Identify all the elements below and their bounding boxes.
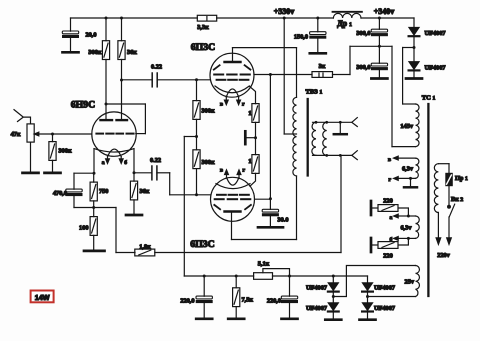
svg-text:0.22: 0.22 (151, 63, 162, 70)
svg-text:в: в (220, 102, 223, 108)
svg-text:6,3v: 6,3v (402, 166, 414, 173)
svg-text:UF4007: UF4007 (425, 30, 446, 37)
svg-text:145v: 145v (400, 123, 413, 130)
ground of R13 (84, 250, 105, 253)
svg-text:ТВЗ 1: ТВЗ 1 (306, 89, 323, 96)
svg-text:UF4007: UF4007 (306, 285, 327, 292)
wire screen lower tube (255, 198, 271, 200)
TVZ secondary winding b (323, 122, 327, 155)
svg-text:Пр 1: Пр 1 (455, 175, 468, 182)
wire cathode V1 right to concertina output (133, 149, 135, 173)
inductor Dr1 choke (333, 13, 361, 18)
svg-text:6,3v: 6,3v (400, 225, 412, 232)
svg-text:6Н9С: 6Н9С (71, 100, 96, 111)
speaker terminal fork lower (352, 151, 358, 160)
wire cathode lower tube (250, 173, 256, 186)
svg-text:30.0: 30.0 (278, 217, 289, 224)
resistor R6 1 ohm (252, 155, 259, 174)
wire right diode node to 25v bottom (368, 296, 416, 298)
wire cathode V1 left (93, 149, 95, 173)
wire B+ top rail (71, 17, 198, 19)
wire feedback run (115, 208, 117, 253)
TC1 primary 220v (434, 164, 438, 213)
svg-text:36к: 36к (140, 188, 150, 195)
ground of C4 (371, 78, 387, 80)
TC1 winding 6,3v heater second (416, 216, 420, 238)
heater pins v g lower tube (226, 173, 228, 178)
resistor R1 300k plate load (105, 18, 107, 41)
ground of heater winding (410, 178, 412, 186)
ground of R11 (45, 172, 61, 174)
capacitor C9 220,0 (203, 276, 205, 296)
svg-text:7,5к: 7,5к (242, 296, 254, 303)
capacitor C5 30,0 screen bypass (269, 199, 271, 210)
resistor R9 36k concertina cathode load (133, 173, 135, 181)
svg-text:1,8к: 1,8к (139, 243, 151, 250)
svg-text:6П3С: 6П3С (190, 239, 215, 250)
potentiometer R10 47k volume (27, 124, 34, 142)
resistor R12 750 cathode bias (93, 173, 95, 182)
svg-text:+330v: +330v (274, 7, 295, 16)
svg-text:а: а (102, 160, 105, 166)
svg-text:3к: 3к (319, 63, 326, 70)
diode D3 UF4007 (332, 276, 334, 283)
svg-text:Вк 2: Вк 2 (451, 196, 463, 203)
svg-text:36к: 36к (127, 49, 137, 56)
capacitor C8 470,0 cathode bypass (74, 172, 94, 174)
svg-text:+340v: +340v (374, 7, 395, 16)
svg-text:20,0: 20,0 (86, 32, 97, 39)
ground of D2 (406, 78, 422, 80)
resistor R2 36k plate load (121, 18, 123, 41)
speaker terminal fork upper (352, 118, 358, 127)
svg-text:150,0: 150,0 (294, 34, 308, 41)
svg-text:220,0: 220,0 (180, 297, 194, 304)
ground tap between cathode resistors (245, 137, 255, 139)
TC1 core (427, 104, 429, 296)
capacitor C1 20,0 (70, 18, 72, 31)
resistor R8 300k grid lower (193, 150, 200, 169)
capacitor C4 300,0 lower (378, 46, 380, 63)
svg-text:300к: 300к (88, 49, 101, 56)
svg-text:300,0: 300,0 (356, 64, 370, 71)
svg-text:47к: 47к (11, 131, 21, 138)
resistor R15 7,5k bleeder (235, 276, 237, 288)
ground of R9 (126, 214, 142, 216)
resistor R14 1,8k feedback (135, 249, 155, 256)
diode D2 UF4007 (413, 48, 415, 62)
wire cathode network node (74, 207, 116, 209)
svg-text:300к: 300к (59, 148, 72, 155)
wire screen riser between tubes (269, 75, 271, 199)
wire row to right diode column (333, 275, 367, 277)
input terminal fork (14, 110, 31, 124)
ground of C5 (258, 226, 283, 229)
heater pins a b (107, 157, 109, 161)
svg-text:1: 1 (248, 110, 251, 117)
wire grid input (53, 133, 92, 135)
resistor R13 100 feedback leg (93, 208, 95, 217)
svg-text:300,0: 300,0 (356, 30, 370, 37)
TC1 winding 145v (416, 104, 420, 147)
wire caps junction to 145v winding bottom (391, 46, 393, 146)
ground of C1 (63, 51, 79, 53)
wire bias feed (184, 136, 196, 138)
wire +330v feed to output transformer center tap (283, 18, 285, 134)
svg-text:1: 1 (248, 158, 251, 165)
svg-text:470,0: 470,0 (53, 190, 67, 197)
wire DC coupling left anode to right grid (106, 103, 145, 105)
resistor R18 220 humdinger lower (378, 242, 398, 249)
svg-text:UF4007: UF4007 (306, 305, 327, 312)
svg-text:3,3к: 3,3к (197, 24, 209, 31)
ground of secondary (339, 122, 341, 133)
svg-text:25v: 25v (405, 279, 415, 286)
svg-text:б: б (124, 159, 127, 166)
wire heater v arrow (397, 157, 416, 159)
svg-text:300к: 300к (202, 108, 215, 115)
wire secondary top rail (313, 121, 352, 123)
svg-text:6П3С: 6П3С (191, 42, 216, 53)
resistor R11 300k grid leak (52, 134, 54, 142)
svg-text:в: в (388, 157, 391, 163)
TC1 winding 6,3v heater (416, 158, 419, 178)
fuse Pr1 (446, 173, 453, 185)
wire heater a arrow (397, 215, 408, 217)
coupling capacitor C6 0.22 upper (122, 79, 153, 81)
svg-text:220,0: 220,0 (267, 297, 281, 304)
resistor R17 220 humdinger upper (378, 205, 398, 212)
svg-text:5,1к: 5,1к (258, 260, 270, 267)
ground of pot (23, 172, 39, 174)
wire primary bottom lead (437, 213, 439, 240)
TVZ primary winding (293, 97, 297, 176)
svg-text:300к: 300к (202, 159, 215, 166)
wire caps junction row (350, 45, 392, 47)
wire heater b arrow (397, 237, 408, 239)
diode D1 UF4007 (413, 18, 415, 27)
diode D4 UF4007 (328, 303, 339, 312)
svg-text:100: 100 (79, 224, 88, 231)
capacitor C10 220,0 (289, 276, 291, 296)
diode D5 UF4007 (362, 283, 373, 292)
TVZ secondary winding a (312, 122, 316, 155)
capacitor C2 150,0 (317, 18, 319, 32)
svg-text:220v: 220v (437, 252, 450, 259)
resistor R16 5,1k trimmer (254, 273, 273, 280)
resistor R5 1 ohm (252, 104, 259, 123)
wire heater g arrow (397, 177, 416, 179)
heater pins v g upper tube (225, 97, 227, 102)
svg-text:0.22: 0.22 (150, 157, 161, 164)
svg-text:UF4007: UF4007 (374, 285, 395, 292)
diode D6 UF4007 (362, 303, 373, 312)
svg-text:в: в (220, 168, 223, 174)
TVZ core (307, 99, 309, 176)
TC1 winding 25v bias (416, 266, 420, 297)
svg-text:ТС 1: ТС 1 (422, 95, 436, 102)
svg-text:220: 220 (383, 197, 392, 204)
svg-text:а: а (390, 215, 393, 221)
svg-text:UF4007: UF4007 (374, 305, 395, 312)
wire cathode upper tube (249, 86, 255, 103)
resistor R4 3k screen feed (254, 74, 312, 76)
svg-text:220: 220 (383, 253, 392, 260)
coupling capacitor C7 0.22 lower (134, 172, 152, 174)
wire anode lower tube to TVZ bottom (231, 212, 233, 240)
power rating badge 14W (31, 291, 54, 303)
wire secondary bottom rail (313, 154, 352, 156)
wire anode upper tube to TVZ top (233, 47, 297, 49)
resistor R3 3,3k decoupling (197, 15, 216, 21)
capacitor C3 300,0 upper (378, 18, 380, 29)
svg-text:UF4007: UF4007 (425, 65, 446, 72)
resistor R7 300k grid upper (196, 80, 198, 101)
wire left diode node to 25v top (333, 266, 415, 297)
wire doubler mid node to 145v winding top (403, 47, 414, 49)
svg-text:14W: 14W (35, 293, 50, 302)
ground of C2 (310, 52, 326, 54)
svg-text:750: 750 (99, 188, 108, 195)
